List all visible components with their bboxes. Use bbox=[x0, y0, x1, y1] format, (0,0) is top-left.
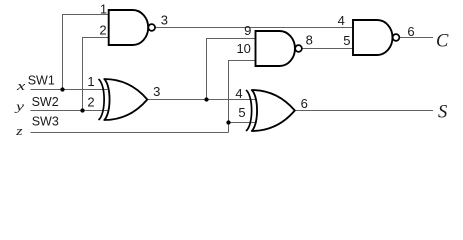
svg-text:1: 1 bbox=[87, 74, 94, 89]
svg-text:10: 10 bbox=[236, 41, 250, 56]
junction node on z branch bbox=[226, 120, 230, 124]
svg-text:3: 3 bbox=[161, 13, 168, 28]
xor gate U2a (pins 1,2,3) bbox=[99, 79, 148, 120]
svg-text:S: S bbox=[438, 102, 447, 122]
wire XOR1 out 3 to XOR2 pin4 bbox=[148, 99, 256, 101]
svg-text:2: 2 bbox=[99, 23, 106, 38]
wire x input bbox=[31, 89, 108, 91]
wire vertical z to NAND2 pin10 bbox=[229, 61, 256, 133]
svg-text:4: 4 bbox=[338, 13, 345, 28]
svg-text:SW1: SW1 bbox=[28, 74, 55, 88]
svg-text:z: z bbox=[15, 123, 22, 138]
xor gate U2b (pins 4,5,6) bbox=[246, 90, 295, 131]
svg-text:6: 6 bbox=[301, 96, 308, 111]
wire y input bbox=[31, 110, 108, 112]
nand gate U1b (pins 4,5,6) bbox=[353, 20, 399, 55]
wire vertical x to NAND1 pin1 bbox=[63, 15, 110, 90]
svg-text:1: 1 bbox=[100, 2, 107, 17]
svg-text:9: 9 bbox=[244, 23, 251, 38]
wire vertical node3 to NAND2 pin9 bbox=[207, 39, 256, 100]
wire NAND2 out 8 to NAND3 pin5 bbox=[302, 48, 353, 50]
wire vertical y to NAND1 pin2 bbox=[83, 38, 110, 111]
wire NAND1 out 3 to NAND3 pin4 bbox=[155, 27, 353, 29]
wire XOR2 out 6 to S bbox=[295, 110, 433, 112]
svg-text:8: 8 bbox=[306, 32, 313, 47]
svg-text:4: 4 bbox=[235, 86, 242, 101]
svg-text:6: 6 bbox=[407, 24, 414, 39]
wire z input bbox=[31, 132, 229, 134]
nand gate U1c (pins 9,10,8) bbox=[256, 31, 302, 66]
svg-text:3: 3 bbox=[153, 84, 160, 99]
junction node on y wire bbox=[80, 108, 84, 112]
svg-text:SW3: SW3 bbox=[32, 115, 59, 129]
junction node on XOR1 output wire bbox=[204, 97, 208, 101]
svg-text:2: 2 bbox=[87, 95, 94, 110]
junction node on x wire bbox=[60, 87, 64, 91]
svg-text:SW2: SW2 bbox=[32, 95, 59, 109]
svg-text:x: x bbox=[16, 78, 26, 93]
wire z branch to XOR2 pin5 bbox=[229, 122, 256, 124]
svg-text:5: 5 bbox=[238, 105, 245, 120]
svg-text:C: C bbox=[436, 31, 449, 51]
svg-text:5: 5 bbox=[343, 33, 350, 48]
wire NAND3 out 6 to C bbox=[400, 37, 433, 39]
nand gate U1a (pins 1,2,3) bbox=[109, 10, 155, 45]
